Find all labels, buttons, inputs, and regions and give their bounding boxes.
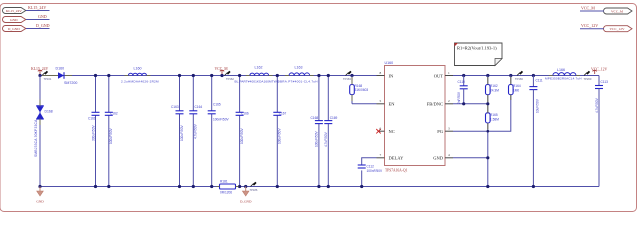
svg-text:10uF/50V: 10uF/50V — [536, 98, 540, 113]
svg-text:7: 7 — [380, 153, 382, 157]
svg-text:0R/1206: 0R/1206 — [220, 191, 232, 195]
svg-text:C163: C163 — [171, 105, 179, 109]
svg-text:100uF/50V: 100uF/50V — [278, 128, 282, 144]
svg-text:DBRA.PT#4001-CL4.7uH: DBRA.PT#4001-CL4.7uH — [278, 79, 318, 83]
node VCC_M — [220, 74, 223, 77]
svg-text:C113: C113 — [601, 80, 609, 84]
port D_GND — [3, 26, 26, 32]
node D_GND rail — [244, 185, 247, 188]
svg-text:C112: C112 — [367, 165, 375, 169]
TVS diode D168 — [34, 106, 53, 157]
svg-text:C164: C164 — [195, 105, 203, 109]
svg-text:1: 1 — [448, 71, 450, 75]
svg-text:4.7uF/50V: 4.7uF/50V — [595, 97, 599, 113]
wire GND pin line — [453, 157, 488, 159]
wire net D_GND — [26, 28, 50, 30]
svg-text:TP186: TP186 — [250, 188, 258, 192]
svg-text:31K/0603: 31K/0603 — [355, 88, 369, 92]
capacitor C169 — [324, 74, 338, 188]
capacitor C164 — [189, 74, 202, 188]
svg-text:GND: GND — [38, 14, 47, 19]
svg-text:R181: R181 — [220, 180, 228, 184]
svg-text:100uF/50V: 100uF/50V — [240, 128, 244, 144]
node KL15 rail — [38, 74, 41, 77]
svg-text:100nF/50V: 100nF/50V — [213, 118, 229, 122]
inductor L162 — [235, 66, 279, 84]
svg-text:TP162: TP162 — [226, 77, 234, 81]
svg-text:TP163: TP163 — [343, 77, 351, 81]
svg-text:R1=R2(Vout/1.193-1): R1=R2(Vout/1.193-1) — [457, 46, 497, 51]
test point TP162 — [225, 71, 235, 81]
svg-text:MPE350B2R0ACL4.7uH: MPE350B2R0ACL4.7uH — [545, 76, 582, 80]
svg-text:5: 5 — [380, 99, 382, 103]
wire DELAY to C112 — [362, 158, 377, 186]
svg-text:100uF/50V: 100uF/50V — [315, 131, 319, 147]
svg-text:100uF/50V: 100uF/50V — [109, 128, 113, 144]
inductor L166 — [545, 68, 582, 80]
svg-text:NC: NC — [389, 129, 395, 134]
capacitor C111 — [529, 74, 542, 188]
svg-text:2nF/50V: 2nF/50V — [457, 91, 461, 104]
resistor R165 — [486, 113, 500, 188]
pin 4 GND — [433, 153, 453, 161]
ground D_GND — [240, 187, 252, 204]
svg-text:TPS7A16A-Q1: TPS7A16A-Q1 — [385, 169, 408, 173]
svg-text:C161: C161 — [88, 117, 96, 121]
wire net GND — [26, 19, 50, 21]
svg-text:U160: U160 — [385, 61, 394, 65]
wire PG line — [453, 95, 511, 132]
test point TP161 — [42, 71, 52, 81]
svg-text:D160: D160 — [56, 67, 65, 71]
capacitor C165 — [208, 74, 230, 188]
svg-text:BL.PART#4001KDA160MTWB: BL.PART#4001KDA160MTWB — [235, 79, 279, 83]
svg-text:8: 8 — [380, 71, 382, 75]
capacitor C166 — [236, 74, 249, 188]
wire bottom rail GND side — [40, 186, 220, 188]
svg-text:C168: C168 — [311, 116, 319, 120]
svg-text:C162: C162 — [110, 112, 118, 116]
svg-text:6: 6 — [380, 127, 382, 131]
pin 6 NC with no-connect X — [376, 127, 394, 135]
test point TP260 — [584, 71, 592, 81]
svg-text:C111: C111 — [536, 79, 543, 83]
svg-text:R165: R165 — [490, 113, 498, 117]
svg-text:D168: D168 — [45, 110, 53, 114]
net hook VCC_M — [220, 70, 224, 74]
svg-text:C110: C110 — [458, 80, 466, 84]
net hook KL15 — [38, 70, 42, 74]
wire FB line — [453, 103, 488, 105]
inductor L160 — [121, 67, 159, 84]
svg-text:DELAY: DELAY — [389, 156, 405, 161]
svg-text:C169: C169 — [330, 116, 338, 120]
note box R1=R2(Vout/1.193-1) — [455, 43, 503, 66]
port KL15_24V — [3, 8, 26, 14]
pin 5 EN — [377, 99, 396, 107]
wire bottom rail D_GND side — [236, 186, 600, 188]
capacitor C110 — [457, 74, 468, 106]
svg-text:VCC_12V: VCC_12V — [610, 27, 625, 31]
svg-text:GND: GND — [36, 200, 44, 204]
diode D160 SM7200 — [56, 67, 78, 86]
svg-text:4.7uF/50V: 4.7uF/50V — [324, 131, 328, 147]
svg-text:VCC_M: VCC_M — [611, 10, 624, 14]
svg-text:SM7200: SM7200 — [64, 81, 77, 85]
wire EN — [352, 103, 377, 105]
component lead segments (gray) — [40, 76, 580, 187]
capacitor C113 — [595, 76, 608, 187]
pin 2 FW/DNC — [427, 99, 453, 107]
wire net VCC_M — [580, 10, 604, 12]
wire net KL15_24V — [26, 10, 50, 12]
resistor R168 — [350, 74, 369, 104]
svg-text:D_GND: D_GND — [8, 27, 20, 31]
pin 1 OUT — [434, 71, 453, 79]
svg-text:R162: R162 — [490, 84, 498, 88]
net hook VCC_12V — [593, 70, 597, 74]
capacitor C163 — [171, 74, 184, 188]
svg-text:L162: L162 — [255, 66, 263, 70]
IC U160 TPS7A16A-Q1 — [385, 61, 446, 173]
svg-text:3: 3 — [448, 127, 450, 131]
svg-text:100nF/50V: 100nF/50V — [367, 169, 383, 173]
resistor R162 — [486, 74, 500, 113]
svg-text:D_GND: D_GND — [240, 200, 252, 204]
wire left branch down — [39, 76, 41, 187]
test point TP186 — [250, 182, 258, 192]
svg-text:1.58M: 1.58M — [490, 118, 499, 122]
test point TP166 — [515, 71, 523, 81]
svg-text:OUT: OUT — [434, 73, 443, 78]
svg-text:1M0: 1M0 — [513, 89, 519, 93]
resistor R164 — [509, 74, 521, 95]
svg-text:TP161: TP161 — [44, 77, 52, 81]
pin 3 PG — [437, 127, 453, 135]
svg-text:330uF/50V: 330uF/50V — [91, 125, 95, 141]
svg-text:2: 2 — [448, 99, 450, 103]
svg-text:PG: PG — [437, 129, 444, 134]
svg-text:VCC_M: VCC_M — [581, 6, 595, 11]
svg-text:R164: R164 — [513, 84, 521, 88]
capacitor C112 — [358, 165, 383, 189]
port VCC_12V — [604, 26, 633, 32]
wire top rail KL15 to IC IN — [40, 75, 377, 77]
wire net VCC_12V — [580, 28, 604, 30]
svg-text:KL15_24V: KL15_24V — [28, 5, 46, 10]
ground GND — [36, 187, 44, 204]
svg-text:SMBJ33CA 30KP33CA: SMBJ33CA 30KP33CA — [34, 119, 38, 157]
svg-text:C167: C167 — [279, 112, 287, 116]
svg-text:GND: GND — [433, 156, 443, 161]
wire OUT rail — [453, 75, 599, 77]
svg-text:KL15_24V: KL15_24V — [6, 9, 22, 13]
svg-text:VCC_12V: VCC_12V — [581, 23, 598, 28]
svg-text:GND: GND — [10, 18, 18, 22]
inductor L163 — [278, 66, 318, 84]
svg-text:4.7uF/50V: 4.7uF/50V — [194, 123, 198, 139]
svg-text:TP166: TP166 — [515, 77, 523, 81]
svg-text:24.3M: 24.3M — [490, 89, 499, 93]
svg-text:TP260: TP260 — [584, 77, 592, 81]
test point TP163 — [343, 71, 352, 81]
svg-text:D_GND: D_GND — [36, 23, 50, 28]
svg-text:C166: C166 — [241, 112, 249, 116]
svg-text:EN: EN — [389, 102, 396, 107]
resistor R181 — [220, 180, 236, 195]
svg-text:C165: C165 — [213, 103, 221, 107]
svg-text:100uF/50V: 100uF/50V — [180, 125, 184, 141]
svg-text:L166: L166 — [557, 68, 565, 72]
port VCC_M — [604, 8, 633, 14]
svg-text:4: 4 — [448, 153, 450, 157]
capacitor C167 — [273, 74, 286, 188]
svg-text:2.2uHMDAA4026-2R2M: 2.2uHMDAA4026-2R2M — [121, 79, 159, 83]
capacitor C161 — [88, 74, 100, 188]
node left bottom — [38, 185, 41, 188]
capacitor C168 — [311, 74, 323, 188]
svg-text:L160: L160 — [134, 67, 142, 71]
svg-text:IN: IN — [389, 73, 394, 78]
svg-text:L163: L163 — [295, 66, 303, 70]
port GND — [3, 17, 26, 23]
pin 8 IN — [377, 71, 394, 79]
pin 7 DELAY — [377, 153, 405, 161]
capacitor C162 — [105, 74, 118, 188]
svg-text:FB/DNC: FB/DNC — [427, 102, 443, 107]
